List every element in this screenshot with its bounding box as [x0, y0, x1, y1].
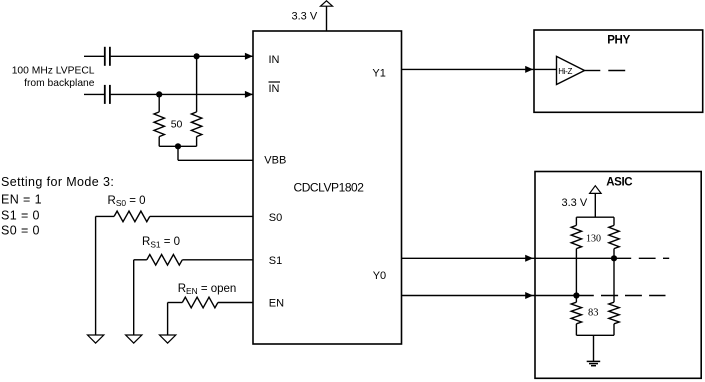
svg-text:83: 83: [588, 308, 599, 319]
input source text: [12, 65, 95, 89]
power net 3.3V in ASIC: [562, 186, 602, 218]
wire top rail in ASIC: [576, 216, 614, 218]
svg-text:S1 = 0: S1 = 0: [1, 208, 40, 222]
wire Y1 to PHY: [402, 66, 557, 73]
svg-text:from backplane: from backplane: [24, 78, 95, 89]
svg-text:ASIC: ASIC: [606, 177, 632, 189]
wire Y0 complement to ASIC: [402, 292, 666, 299]
pin label IN-bar: [269, 82, 281, 95]
resistor 83 left column: [571, 296, 581, 336]
resistor RS1 = 0: [134, 255, 253, 336]
svg-text:Hi-Z: Hi-Z: [558, 67, 572, 76]
node junction Y0-comp / 130-83 tap: [573, 292, 579, 298]
resistor 83 right column: [609, 258, 619, 335]
svg-text:50: 50: [171, 119, 183, 131]
capacitor C1 (IN ac-coupling): [105, 47, 110, 66]
pin label S0: [269, 212, 282, 224]
svg-text:EN: EN: [269, 298, 284, 310]
svg-text:IN: IN: [269, 83, 280, 95]
value label 130: [586, 233, 601, 244]
buffer U2 Hi-Z in PHY: [557, 56, 626, 84]
resistor 130 left column: [571, 217, 581, 295]
node junction on IN wire: [194, 53, 200, 59]
svg-text:3.3 V: 3.3 V: [292, 11, 318, 23]
svg-text:100 MHz LVPECL: 100 MHz LVPECL: [12, 65, 95, 76]
wire joining 50-ohm resistors to VBB: [159, 146, 253, 160]
PHY box: [534, 30, 703, 112]
svg-text:CDCLVP1802: CDCLVP1802: [294, 180, 365, 194]
ASIC box: [535, 172, 701, 379]
resistor REN = open: [168, 297, 253, 335]
svg-text:Y0: Y0: [373, 270, 386, 282]
value label 83: [588, 308, 599, 319]
capacitor C2 (IN-bar ac-coupling): [105, 85, 110, 104]
resistor 130 right column: [609, 217, 619, 258]
wire IN-bar (bottom input): [84, 91, 253, 98]
svg-text:S0 = 0: S0 = 0: [1, 224, 40, 238]
IC U1 CDCLVP1802 box: [253, 31, 402, 344]
svg-text:3.3 V: 3.3 V: [562, 197, 588, 209]
resistor RS0 = 0: [96, 211, 253, 335]
svg-text:Setting for Mode 3:: Setting for Mode 3:: [1, 175, 114, 189]
pin label IN: [269, 54, 280, 66]
ground (S1): [126, 335, 142, 343]
pin label EN: [269, 298, 284, 310]
pin label S1: [269, 255, 282, 267]
resistor 50 right (from IN): [191, 56, 201, 146]
node junction VBB tap: [175, 143, 181, 149]
node junction on IN-bar wire: [156, 91, 162, 97]
resistor REN label: [178, 283, 237, 296]
wire Y0 true to ASIC: [402, 255, 670, 262]
pin label VBB: [264, 155, 286, 167]
svg-text:EN = 1: EN = 1: [1, 192, 42, 206]
resistor RS1 label: [142, 236, 180, 249]
svg-text:S0: S0: [269, 212, 282, 224]
svg-text:REN = open: REN = open: [178, 283, 237, 296]
svg-text:Y1: Y1: [372, 68, 385, 80]
svg-text:RS1 = 0: RS1 = 0: [142, 236, 180, 249]
svg-text:PHY: PHY: [607, 35, 630, 47]
svg-text:IN: IN: [269, 54, 280, 66]
ground (ASIC termination): [587, 335, 601, 365]
resistor 50 left (from IN-bar): [154, 94, 164, 146]
wire bottom rail in ASIC: [576, 334, 614, 336]
ground (S0): [88, 335, 104, 343]
svg-text:RS0 = 0: RS0 = 0: [108, 195, 146, 208]
ground (EN): [160, 335, 176, 343]
svg-text:VBB: VBB: [264, 155, 286, 167]
value label 50: [171, 119, 183, 131]
svg-text:S1: S1: [269, 255, 282, 267]
resistor RS0 label: [108, 195, 146, 208]
pin label Y0: [373, 270, 386, 282]
wire IN (top input): [84, 53, 253, 60]
svg-text:130: 130: [586, 233, 601, 244]
node junction Y0-true / 130-83 tap: [611, 255, 617, 261]
pin label Y1: [372, 68, 385, 80]
mode setting note text: [1, 175, 114, 237]
power net 3.3V at IC top: [292, 1, 333, 31]
